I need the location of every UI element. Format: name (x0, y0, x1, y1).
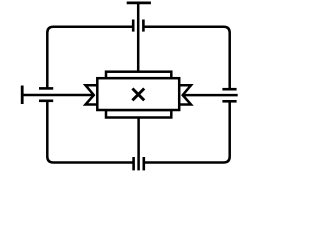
wire: motor bottom pole to bottom end (137, 118, 140, 171)
feedthrough capacitor C2 (bottom) (134, 157, 144, 170)
wire: top terminal to motor top pole (137, 3, 140, 72)
wire: left terminal to left brush (22, 94, 94, 97)
shield loop segment bottom-right (wire) (144, 102, 229, 163)
feedthrough capacitor C1 (top) (133, 20, 143, 32)
brush right (179, 85, 191, 104)
wire: right brush to right end (182, 94, 238, 97)
motor M1 armature body (97, 78, 179, 110)
shield loop segment top-right (wire) (144, 27, 230, 89)
feedthrough capacitor C3 (left) (39, 88, 53, 100)
shield loop segment top-left (wire) (47, 27, 132, 88)
motor M1 armature X mark (132, 89, 144, 101)
terminal bar left (21, 86, 24, 105)
motor M1 bottom field winding (106, 110, 171, 118)
feedthrough capacitor C4 (right) (222, 89, 236, 101)
terminal bar top (127, 2, 151, 5)
brush left (86, 85, 98, 104)
motor M1 top field winding (106, 72, 171, 79)
shield loop segment bottom-left (wire) (47, 101, 133, 162)
